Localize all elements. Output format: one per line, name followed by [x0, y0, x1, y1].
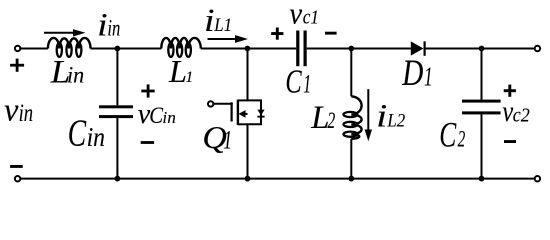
inductor Lin coil [48, 38, 91, 57]
svg-text:1: 1 [424, 61, 433, 91]
capacitor C1 left plate [296, 31, 299, 67]
wire L2 branch bottom [350, 139, 352, 179]
label plus vc2 [504, 85, 516, 97]
label minus vCin [141, 141, 154, 144]
wire top rail Lin to L1 [91, 48, 162, 50]
node dot C2 bottom [479, 176, 485, 182]
svg-text:i: i [204, 3, 215, 39]
svg-text:2: 2 [458, 127, 466, 152]
node dot Cin top [115, 46, 121, 52]
svg-text:v: v [4, 93, 19, 129]
svg-text:C: C [285, 63, 301, 100]
wire top rail left segment [20, 48, 48, 50]
svg-text:in: in [162, 108, 175, 127]
label iL1 [204, 3, 232, 39]
capacitor Cin bottom plate [99, 115, 133, 118]
svg-text:1: 1 [223, 126, 232, 155]
transistor Q1 gate terminal circle [208, 101, 213, 106]
svg-text:C: C [439, 114, 457, 154]
node dot Cin bottom [115, 176, 121, 182]
node dot L2 bottom [348, 176, 354, 182]
terminal top right [535, 46, 540, 51]
node dot C2 top [479, 46, 485, 52]
label vc2 [502, 95, 529, 128]
label vCin [138, 99, 176, 130]
transistor Q1 drain stub [238, 99, 248, 101]
label iin [97, 7, 120, 43]
inductor L2 coil [344, 96, 362, 138]
label plus vc1 [271, 28, 283, 40]
svg-text:c2: c2 [513, 104, 530, 126]
label C2 [439, 114, 465, 154]
wire L2 branch top [350, 49, 352, 97]
terminal bottom left [15, 176, 20, 181]
svg-text:i: i [97, 7, 108, 43]
label minus left terminal [10, 165, 23, 168]
transistor Q1 channel bar [237, 100, 239, 125]
capacitor Cin top plate [99, 105, 133, 108]
wire Cin branch bottom [116, 118, 118, 179]
label vc1 [289, 0, 319, 31]
label L2 [310, 100, 335, 136]
label Cin [68, 113, 105, 155]
diode D1 cathode bar [424, 41, 426, 56]
wire bottom rail [20, 178, 534, 180]
wire top rail D1 to right terminal [425, 48, 534, 50]
label plus vCin [141, 84, 154, 97]
wire C2 branch top [481, 49, 483, 101]
terminal bottom right [535, 176, 540, 181]
transistor Q1 body lead [244, 113, 248, 115]
svg-text:c1: c1 [303, 7, 319, 29]
label L1 [168, 53, 193, 89]
svg-text:in: in [67, 62, 84, 87]
label C1 [285, 63, 311, 100]
svg-text:L2: L2 [387, 111, 406, 132]
capacitor C1 right plate [304, 31, 307, 67]
wire top rail L1 to C1 [201, 48, 296, 50]
transistor Q1 body diode bar [257, 116, 264, 118]
wire top rail C1 to D1 [307, 48, 411, 50]
transistor Q1 gate lead [214, 103, 233, 105]
transistor Q1 gate bar [231, 102, 233, 121]
svg-text:C: C [68, 113, 87, 155]
label Q1 [202, 119, 232, 155]
label D1 [401, 53, 432, 94]
node dot Q1 top [245, 46, 251, 52]
inductor L1 coil [161, 38, 201, 57]
current arrow iin [44, 29, 86, 36]
svg-text:in: in [19, 100, 33, 127]
label minus vc2 [504, 140, 516, 143]
svg-text:in: in [87, 122, 105, 152]
svg-text:L1: L1 [213, 15, 232, 36]
label vin [4, 93, 33, 129]
wire C2 branch bottom [481, 114, 483, 178]
svg-text:1: 1 [303, 70, 311, 99]
label Lin [50, 54, 85, 90]
current arrow iL2 [365, 89, 372, 141]
capacitor C2 top plate [462, 100, 501, 103]
wire Q1 source [247, 124, 249, 178]
transistor Q1 body diode triangle [257, 110, 264, 116]
transistor Q1 body arrow head [239, 110, 246, 118]
wire Cin branch top [116, 49, 118, 106]
svg-text:i: i [376, 99, 387, 135]
label iL2 [376, 99, 405, 135]
svg-text:2: 2 [327, 108, 335, 133]
transistor Q1 source stub [238, 123, 248, 125]
terminal top left [15, 46, 20, 51]
node dot Q1 bottom [245, 176, 251, 182]
diode D1 triangle [411, 41, 424, 55]
wire Q1 drain [247, 49, 249, 101]
svg-text:1: 1 [185, 69, 193, 86]
svg-text:in: in [107, 16, 120, 41]
label minus vc1 [325, 32, 337, 35]
svg-text:v: v [289, 0, 302, 31]
capacitor C2 bottom plate [462, 111, 501, 114]
transistor Q1 body diode loop [248, 100, 262, 124]
current arrow iL1 [208, 35, 249, 43]
svg-text:L: L [168, 53, 187, 89]
label plus left terminal [10, 59, 24, 72]
svg-text:D: D [401, 53, 423, 94]
node dot L2 top [348, 46, 354, 52]
